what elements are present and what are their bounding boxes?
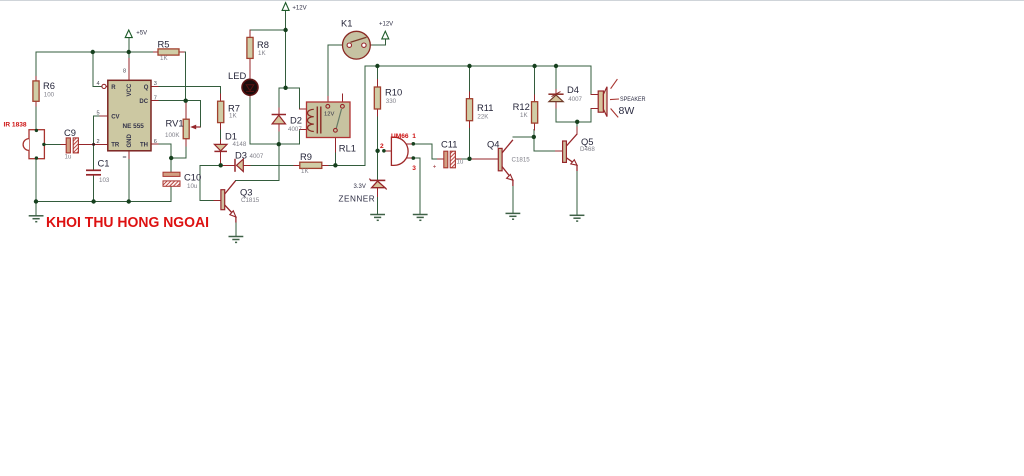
svg-text:12V: 12V <box>324 112 334 118</box>
svg-text:R8: R8 <box>257 39 269 50</box>
svg-text:TH: TH <box>140 143 148 149</box>
svg-text:2: 2 <box>380 143 384 150</box>
svg-text:1K: 1K <box>301 168 309 175</box>
svg-text:100: 100 <box>44 91 55 98</box>
svg-text:R12: R12 <box>513 101 530 112</box>
svg-text:8W: 8W <box>619 105 635 117</box>
svg-text:KHOI THU HONG NGOAI: KHOI THU HONG NGOAI <box>46 215 209 231</box>
svg-text:1u: 1u <box>457 159 464 166</box>
svg-text:5: 5 <box>97 110 100 116</box>
svg-text:8: 8 <box>123 69 126 75</box>
svg-text:R5: R5 <box>158 39 170 50</box>
svg-text:4007: 4007 <box>250 153 264 160</box>
svg-text:+12V: +12V <box>292 6 306 12</box>
svg-text:10u: 10u <box>187 183 198 190</box>
svg-text:D2: D2 <box>290 115 302 126</box>
svg-text:7: 7 <box>154 95 157 101</box>
svg-text:1K: 1K <box>520 112 528 119</box>
svg-text:R10: R10 <box>385 87 402 98</box>
svg-text:D3: D3 <box>235 149 247 160</box>
svg-text:RV1: RV1 <box>166 118 184 129</box>
svg-text:C10: C10 <box>184 172 201 183</box>
svg-text:ZENNER: ZENNER <box>339 195 376 204</box>
svg-text:+: + <box>433 164 437 170</box>
svg-text:4007: 4007 <box>288 126 302 133</box>
svg-text:6: 6 <box>154 139 157 145</box>
svg-text:D468: D468 <box>580 146 595 153</box>
svg-text:Q3: Q3 <box>240 187 253 198</box>
svg-text:TR: TR <box>111 143 120 149</box>
svg-text:22K: 22K <box>477 113 489 120</box>
svg-text:R11: R11 <box>477 102 494 113</box>
svg-text:C11: C11 <box>441 139 458 150</box>
svg-text:4: 4 <box>97 81 100 87</box>
svg-text:IR 1838: IR 1838 <box>4 122 27 129</box>
svg-text:LED: LED <box>228 70 246 81</box>
svg-text:C1815: C1815 <box>512 157 531 164</box>
svg-text:1: 1 <box>412 133 416 140</box>
svg-text:4007: 4007 <box>568 96 582 103</box>
svg-text:+5V: +5V <box>136 31 147 37</box>
svg-text:C9: C9 <box>64 127 76 138</box>
svg-text:DC: DC <box>139 99 148 105</box>
svg-text:4148: 4148 <box>233 141 247 148</box>
svg-text:1K: 1K <box>229 113 237 120</box>
svg-text:3.3V: 3.3V <box>354 184 366 190</box>
svg-text:SPEAKER: SPEAKER <box>620 97 646 103</box>
svg-text:C1815: C1815 <box>241 197 260 204</box>
svg-text:K1: K1 <box>341 18 352 29</box>
svg-text:C1: C1 <box>98 158 110 169</box>
svg-text:330: 330 <box>386 98 397 105</box>
svg-text:RL1: RL1 <box>339 143 356 154</box>
svg-text:Q4: Q4 <box>487 139 500 150</box>
svg-text:R9: R9 <box>300 151 312 162</box>
svg-text:1K: 1K <box>258 50 266 57</box>
svg-text:2: 2 <box>97 139 100 145</box>
svg-text:R: R <box>111 85 116 91</box>
svg-text:CV: CV <box>111 114 119 120</box>
svg-text:Q: Q <box>144 85 149 91</box>
svg-text:D4: D4 <box>567 84 579 95</box>
svg-text:100K: 100K <box>165 132 180 139</box>
svg-text:D1: D1 <box>225 130 237 141</box>
svg-text:1u: 1u <box>65 154 72 161</box>
svg-text:GND: GND <box>127 134 133 148</box>
svg-text:R6: R6 <box>43 80 55 91</box>
svg-text:103: 103 <box>99 177 110 184</box>
svg-text:3: 3 <box>154 81 157 87</box>
svg-text:1K: 1K <box>160 55 168 62</box>
svg-text:VCC: VCC <box>127 83 133 96</box>
svg-text:3: 3 <box>412 165 416 172</box>
svg-text:+12V: +12V <box>379 22 393 28</box>
svg-text:NE 555: NE 555 <box>123 123 145 130</box>
svg-text:UM66: UM66 <box>391 133 409 140</box>
